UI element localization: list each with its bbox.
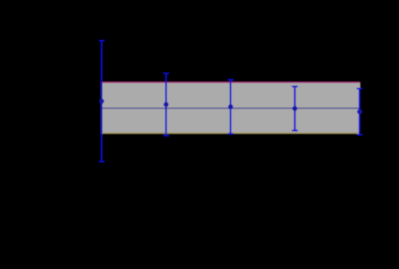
band bottom edge line (olive) (101, 132, 361, 134)
error bar 1 stem (101, 41, 103, 162)
error bar 1 bottom cap (99, 161, 105, 163)
error bar 5 bottom cap (357, 134, 363, 136)
error bar 2 bottom cap (163, 135, 169, 137)
data marker 4 (292, 106, 297, 111)
mean fit line (navy) (102, 107, 360, 109)
error bar 4 bottom cap (292, 130, 298, 132)
data marker 1 (99, 99, 104, 104)
error bar 5 stem (359, 89, 361, 135)
error bar 3 bottom cap (228, 133, 234, 135)
data marker 3 (228, 104, 233, 109)
data marker 5 (357, 109, 362, 114)
error bar 2 top cap (163, 72, 169, 74)
confidence band fill (101, 82, 361, 133)
error bar 4 top cap (292, 86, 298, 88)
error bar 4 stem (294, 87, 296, 131)
error bar 5 top cap (357, 88, 363, 90)
error bar 3 top cap (228, 79, 234, 81)
error bar 3 stem (230, 80, 232, 134)
band top edge line (magenta) (101, 81, 361, 83)
data marker 2 (164, 102, 169, 107)
error bar 2 stem (165, 73, 167, 135)
error bar 1 top cap (99, 40, 105, 42)
